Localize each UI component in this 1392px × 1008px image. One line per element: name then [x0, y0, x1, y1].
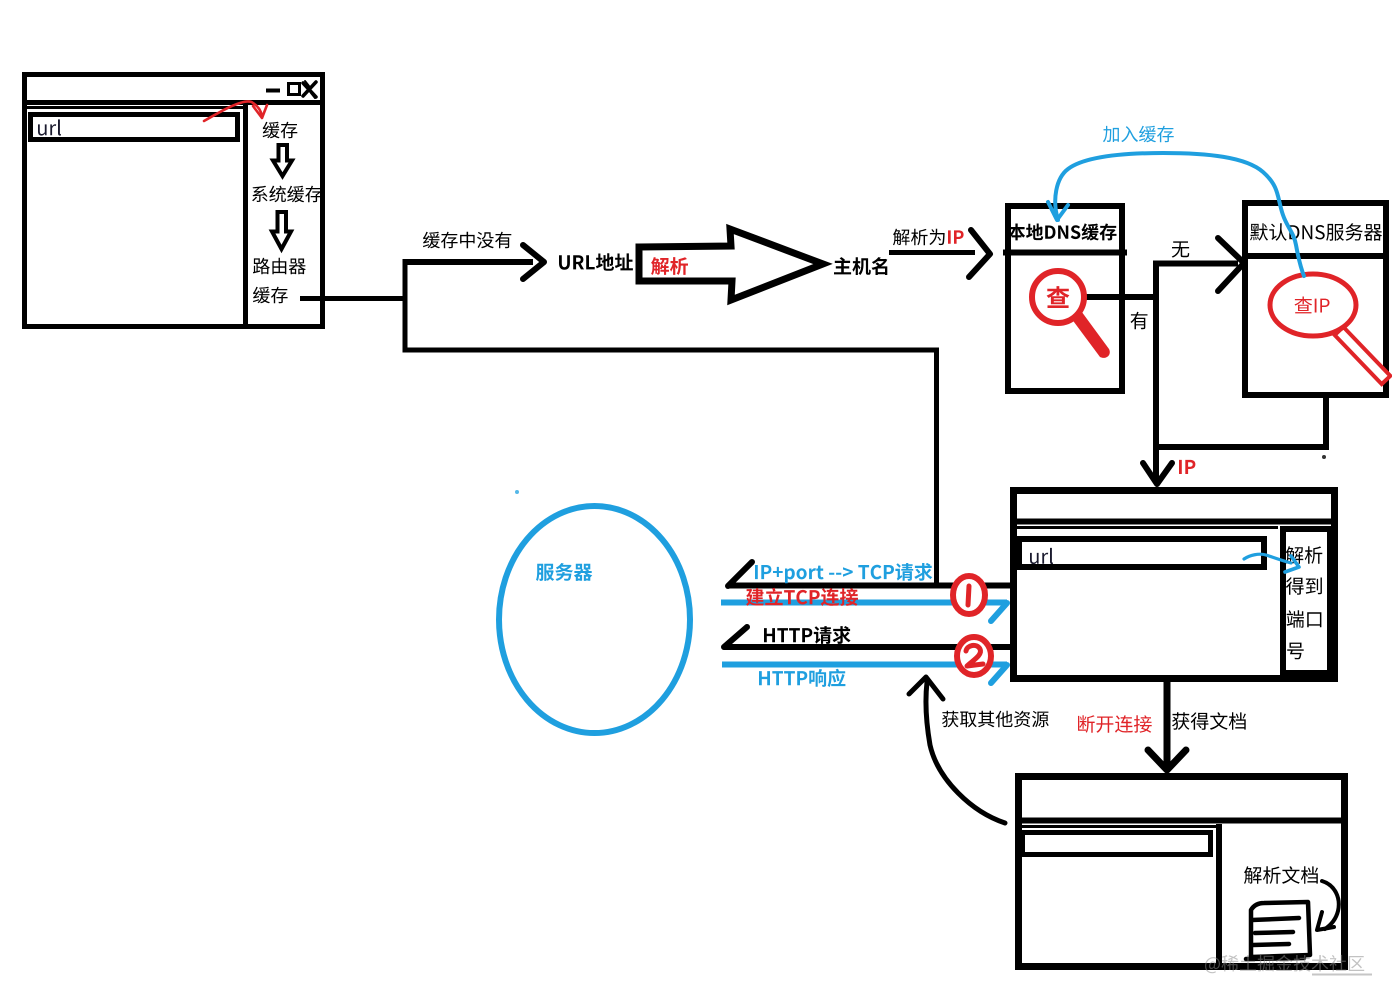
local DNS cache title divider [1003, 250, 1127, 256]
browser title bar bottom line [22, 100, 325, 105]
sidebar label 路由器 [253, 258, 306, 275]
middle sidebar box [1283, 529, 1330, 673]
label HTTP请求 [764, 626, 851, 644]
bottom box pane top line [1018, 825, 1216, 828]
wire vertical between DNS boxes [1153, 261, 1159, 451]
browser window frame [25, 75, 323, 327]
sidebar label 解析 [1286, 546, 1323, 564]
wire HTTP request (black) [724, 644, 1010, 650]
sidebar block arrow 1 [273, 145, 292, 176]
server ellipse [499, 506, 690, 733]
blue curve arrow head [1048, 202, 1068, 220]
IP arrow head [1143, 463, 1172, 484]
magnifier label 查IP [1295, 297, 1330, 314]
wire magnifier to vertical [1085, 294, 1157, 300]
label 解析文档 [1244, 866, 1318, 884]
resolve-to-ip arrow head [969, 230, 990, 277]
no-cache arrow head [523, 245, 544, 279]
label 解析为 [893, 229, 945, 246]
digit 2 inside circle [966, 645, 983, 666]
magnifier 查IP handle [1335, 327, 1391, 384]
watermark @稀土掘金技术社区 [1205, 955, 1364, 973]
sidebar label 得到 [1286, 577, 1322, 594]
wire 无 arrow head [1218, 238, 1244, 291]
label 加入缓存 (blue) [1103, 126, 1174, 143]
get document arrow head [1148, 750, 1186, 770]
wire IP vertical to arrow [1153, 447, 1159, 480]
close icon [303, 82, 316, 97]
HTTP response arrow barb [991, 665, 1007, 683]
wire TCP connect (blue) [721, 600, 1007, 606]
long wire to middle box [405, 350, 937, 585]
close icon serif strokes [305, 81, 315, 98]
wire get document vertical [1164, 679, 1171, 765]
label 建立TCP连接 (red) [746, 588, 858, 606]
bottom url input box [1023, 833, 1211, 855]
middle box title bar line [1012, 519, 1336, 525]
magnifier 查IP ellipse [1270, 274, 1356, 336]
minimize icon [266, 89, 280, 93]
sidebar block arrow 2 [272, 212, 291, 249]
wire 无 horizontal [1154, 261, 1238, 267]
default DNS server box [1245, 203, 1386, 395]
bottom box divider [1216, 824, 1222, 967]
label 主机名 [834, 257, 887, 275]
label 本地DNS缓存 [1008, 223, 1117, 240]
label 默认DNS服务器 [1250, 223, 1382, 241]
label 断开连接 (red) [1078, 715, 1152, 733]
local DNS cache box [1008, 206, 1122, 391]
step circle 1 [953, 576, 985, 614]
sidebar label 号 [1287, 643, 1304, 660]
middle url input box [1019, 539, 1264, 567]
label HTTP响应 (blue) [759, 669, 845, 687]
blue arrow url to port [1244, 554, 1291, 563]
wire cache to junction [300, 296, 408, 301]
label 服务器 (blue) [536, 563, 592, 581]
magnifier label 查 [1047, 286, 1070, 308]
browser content pane top line [25, 106, 243, 109]
document icon line 3 [1253, 944, 1289, 945]
TCP request arrow barb [728, 562, 752, 586]
sidebar label 缓存 (2) [253, 287, 288, 304]
bottom browser box frame [1019, 777, 1345, 967]
label IP (red) [1179, 460, 1195, 474]
wire HTTP response (blue) [722, 662, 1007, 668]
digit 1 inside circle [968, 586, 969, 605]
block arrow 解析 [639, 229, 823, 300]
sidebar label 端口 [1287, 610, 1322, 628]
document icon line 1 [1252, 918, 1299, 920]
wire TCP request (black) [728, 583, 1010, 589]
TCP connect arrow barb [991, 603, 1007, 621]
document icon outline [1251, 902, 1310, 957]
bottom box title bar line [1017, 818, 1346, 824]
red arrow head [253, 105, 267, 118]
stray black dot [1322, 455, 1326, 459]
label 缓存中没有 [423, 232, 511, 249]
wire junction vertical [403, 259, 408, 353]
resolve-to-ip arrow shaft [889, 250, 975, 255]
red arrow title-to-cache [204, 102, 262, 122]
magnifier 查 circle [1032, 271, 1084, 323]
middle url text [1030, 548, 1053, 564]
sidebar label 缓存 [263, 122, 298, 139]
HTTP request arrow barb [724, 627, 747, 647]
label URL地址 [559, 253, 633, 270]
stray blue dot [515, 490, 519, 494]
wire IP horizontal [1153, 444, 1329, 450]
label IP (red, after 解析为) [948, 230, 964, 243]
label 解析 (red) [651, 257, 688, 275]
blue curve 加入缓存 [1055, 153, 1304, 276]
label 获得文档 [1172, 712, 1246, 730]
parse document curved arrow [1322, 881, 1339, 929]
magnifier 查 handle [1073, 312, 1110, 358]
document icon bottom line [1246, 958, 1304, 959]
watermark underline [1312, 974, 1372, 976]
wire from default DNS bottom [1323, 395, 1329, 450]
label 无 [1172, 241, 1190, 257]
maximize icon [289, 84, 300, 95]
parse document arrow head [1317, 912, 1334, 930]
middle browser box frame [1014, 491, 1335, 679]
document icon line 2 [1255, 932, 1293, 933]
sidebar label 系统缓存 [252, 186, 322, 203]
label 有 [1131, 312, 1148, 330]
wire no-cache arrow shaft [403, 259, 534, 265]
url text [38, 119, 61, 135]
step circle 2 [957, 637, 991, 675]
curved arrow head [909, 677, 943, 699]
label 获取其他资源 [942, 711, 1049, 728]
browser sidebar divider [243, 104, 248, 327]
default DNS server title divider [1242, 253, 1389, 259]
blue arrow url to port head [1285, 556, 1299, 572]
middle box pane top line [1013, 526, 1278, 529]
url input box [31, 115, 238, 140]
curved arrow get other resources [926, 682, 1005, 823]
